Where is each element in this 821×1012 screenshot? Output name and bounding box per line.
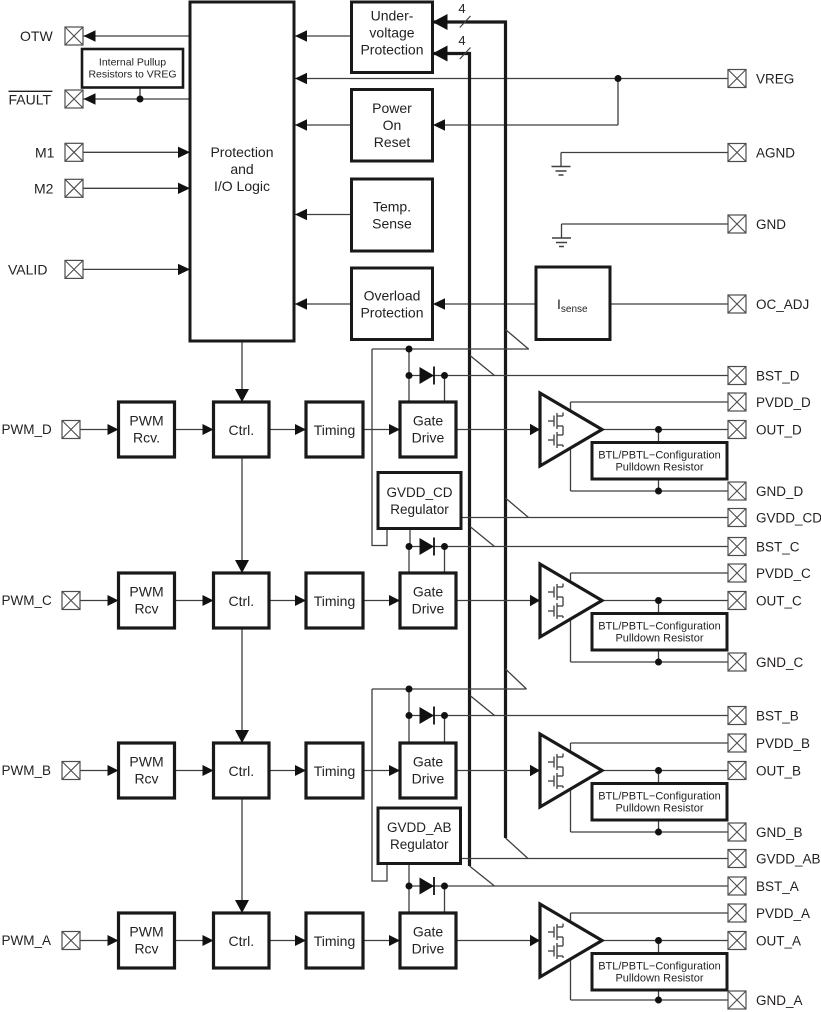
svg-text:Ctrl.: Ctrl. [228, 763, 254, 779]
svg-text:Protection: Protection [360, 42, 423, 58]
svg-text:PVDD_D: PVDD_D [756, 395, 811, 410]
svg-text:and: and [230, 161, 253, 177]
svg-text:PWM: PWM [129, 584, 163, 600]
svg-text:PWM: PWM [129, 413, 163, 429]
svg-text:Sense: Sense [372, 216, 412, 232]
svg-text:BST_B: BST_B [756, 709, 799, 724]
svg-text:Overload: Overload [364, 288, 421, 304]
svg-text:Rcv: Rcv [134, 941, 158, 957]
svg-text:BTL/PBTL−Configuration: BTL/PBTL−Configuration [598, 961, 721, 973]
svg-text:OC_ADJ: OC_ADJ [756, 297, 809, 312]
svg-text:PWM_D: PWM_D [2, 422, 53, 437]
svg-text:PVDD_B: PVDD_B [756, 736, 810, 751]
svg-text:BTL/PBTL−Configuration: BTL/PBTL−Configuration [598, 621, 721, 633]
svg-text:PWM: PWM [129, 754, 163, 770]
svg-text:Drive: Drive [412, 941, 445, 957]
svg-text:Pulldown Resistor: Pulldown Resistor [615, 803, 703, 815]
svg-text:Regulator: Regulator [390, 502, 449, 517]
svg-text:GND_A: GND_A [756, 993, 803, 1008]
svg-text:VREG: VREG [756, 72, 794, 87]
svg-text:I/O Logic: I/O Logic [214, 178, 270, 194]
svg-text:Resistors to VREG: Resistors to VREG [88, 68, 176, 80]
svg-text:GND: GND [756, 217, 786, 232]
svg-text:Drive: Drive [412, 430, 445, 446]
svg-text:OUT_C: OUT_C [756, 594, 802, 609]
svg-text:On: On [383, 117, 402, 133]
svg-text:Protection: Protection [210, 144, 273, 160]
svg-text:Timing: Timing [314, 763, 356, 779]
svg-text:Pulldown Resistor: Pulldown Resistor [615, 973, 703, 985]
svg-text:Protection: Protection [360, 305, 423, 321]
svg-text:PVDD_C: PVDD_C [756, 566, 811, 581]
svg-text:Gate: Gate [413, 754, 444, 770]
svg-text:GVDD_AB: GVDD_AB [756, 852, 821, 867]
svg-text:Pulldown Resistor: Pulldown Resistor [615, 633, 703, 645]
svg-text:Rcv: Rcv [134, 771, 158, 787]
svg-text:M1: M1 [35, 144, 55, 160]
svg-text:Gate: Gate [413, 584, 444, 600]
svg-text:PWM_B: PWM_B [2, 763, 52, 778]
svg-text:OTW: OTW [20, 28, 53, 44]
svg-text:GVDD_AB: GVDD_AB [387, 820, 452, 835]
svg-text:Rcv.: Rcv. [133, 430, 160, 446]
svg-text:Timing: Timing [314, 933, 356, 949]
svg-text:M2: M2 [34, 180, 54, 196]
svg-text:Under-: Under- [371, 8, 414, 24]
svg-text:Ctrl.: Ctrl. [228, 933, 254, 949]
svg-text:Timing: Timing [314, 422, 356, 438]
svg-text:PVDD_A: PVDD_A [756, 906, 810, 921]
svg-text:PWM: PWM [129, 924, 163, 940]
svg-text:BST_A: BST_A [756, 879, 799, 894]
svg-text:OUT_A: OUT_A [756, 934, 801, 949]
svg-text:GND_C: GND_C [756, 655, 804, 670]
svg-text:OUT_D: OUT_D [756, 423, 802, 438]
svg-text:Regulator: Regulator [390, 837, 449, 852]
svg-text:voltage: voltage [369, 25, 414, 41]
svg-text:VALID: VALID [8, 261, 47, 277]
svg-text:Pulldown Resistor: Pulldown Resistor [615, 462, 703, 474]
svg-text:Timing: Timing [314, 593, 356, 609]
svg-text:OUT_B: OUT_B [756, 764, 801, 779]
svg-text:Rcv: Rcv [134, 601, 158, 617]
svg-text:4: 4 [458, 33, 465, 48]
svg-text:AGND: AGND [756, 146, 795, 161]
svg-text:Gate: Gate [413, 924, 444, 940]
svg-text:PWM_A: PWM_A [2, 933, 52, 948]
svg-text:Power: Power [372, 100, 412, 116]
svg-text:Reset: Reset [374, 134, 411, 150]
svg-text:4: 4 [458, 1, 465, 16]
svg-text:Drive: Drive [412, 601, 445, 617]
svg-text:GVDD_CD: GVDD_CD [386, 485, 452, 500]
svg-text:Ctrl.: Ctrl. [228, 422, 254, 438]
svg-text:BTL/PBTL−Configuration: BTL/PBTL−Configuration [598, 791, 721, 803]
svg-text:GND_D: GND_D [756, 484, 804, 499]
svg-text:PWM_C: PWM_C [2, 593, 53, 608]
svg-text:GVDD_CD: GVDD_CD [756, 511, 821, 526]
svg-text:BST_D: BST_D [756, 369, 800, 384]
svg-text:Temp.: Temp. [373, 199, 411, 215]
svg-text:GND_B: GND_B [756, 825, 803, 840]
svg-text:Drive: Drive [412, 771, 445, 787]
svg-text:FAULT: FAULT [9, 92, 52, 108]
svg-text:BTL/PBTL−Configuration: BTL/PBTL−Configuration [598, 450, 721, 462]
svg-text:Internal Pullup: Internal Pullup [99, 56, 166, 68]
svg-text:Gate: Gate [413, 413, 444, 429]
svg-text:Ctrl.: Ctrl. [228, 593, 254, 609]
svg-text:BST_C: BST_C [756, 540, 800, 555]
